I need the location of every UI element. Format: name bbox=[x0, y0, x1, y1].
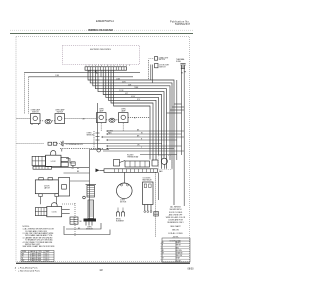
wire lamp labels bbox=[83, 117, 137, 120]
title WIRING DIAGRAM bbox=[10, 28, 193, 32]
lamp switch L1 bbox=[31, 114, 41, 125]
wire fan-out right bbox=[88, 70, 174, 205]
door light switch SW2 bbox=[155, 63, 170, 68]
oven light switch SW1 bbox=[149, 57, 169, 62]
lock motor assembly A1 bbox=[32, 151, 68, 167]
right notes block bbox=[166, 206, 186, 239]
wire relay to enclosure bbox=[70, 180, 90, 182]
svg-text:THERMOSTAT: THERMOSTAT bbox=[127, 156, 138, 159]
svg-text:SEW: SEW bbox=[38, 258, 42, 260]
convection label bbox=[108, 131, 114, 135]
svg-text:WIRE NO. AND COLOR: WIRE NO. AND COLOR bbox=[166, 216, 186, 219]
svg-text:WHITE: WHITE bbox=[176, 245, 181, 247]
wire drops below box right bbox=[149, 60, 153, 83]
svg-text:SEE CHART: SEE CHART bbox=[170, 225, 181, 228]
date code bbox=[188, 267, 195, 270]
svg-text:FOR ALL CODES: FOR ALL CODES bbox=[168, 232, 183, 235]
svg-text:34 W: 34 W bbox=[122, 81, 126, 83]
svg-text:ALL WIRING: ALL WIRING bbox=[170, 206, 181, 209]
convection motor M1 bbox=[117, 172, 133, 203]
svg-text:COLOR CODE: COLOR CODE bbox=[169, 240, 181, 242]
svg-text:TEMP: TEMP bbox=[45, 251, 49, 253]
thermal fuse TF1 bbox=[176, 58, 186, 74]
wire chart table bbox=[21, 250, 54, 262]
element terminals bbox=[116, 208, 125, 223]
svg-text:SWITCH: SWITCH bbox=[159, 59, 166, 61]
svg-text:65 GY: 65 GY bbox=[131, 96, 135, 98]
publication number text bbox=[170, 20, 191, 26]
svg-text:SEE WIRE CHART BELOW FOR SIZE: SEE WIRE CHART BELOW FOR SIZE bbox=[23, 245, 56, 248]
svg-text:E30EW75GPS A: E30EW75GPS A bbox=[96, 20, 114, 23]
wire lamp drops bbox=[101, 123, 123, 131]
svg-text:YELLOW: YELLOW bbox=[176, 255, 183, 257]
wire color code table bbox=[161, 238, 191, 262]
door switch S3 bbox=[62, 203, 83, 237]
lamp row labels bbox=[31, 108, 127, 113]
svg-text:LOCK: LOCK bbox=[51, 161, 57, 163]
wire thermal fuse drops bbox=[182, 70, 185, 206]
notes block bbox=[23, 226, 56, 248]
svg-text:12 BK: 12 BK bbox=[116, 79, 120, 81]
svg-text:13: 13 bbox=[99, 268, 103, 272]
svg-text:BELOW: BELOW bbox=[172, 230, 179, 232]
thermal fuse wire left bbox=[17, 141, 163, 146]
igniter element E2 bbox=[84, 200, 97, 222]
svg-text:5995502537: 5995502537 bbox=[175, 23, 191, 26]
svg-text:VIOLET: VIOLET bbox=[176, 260, 182, 262]
connector P1 bbox=[85, 67, 127, 70]
svg-text:*: * bbox=[15, 271, 16, 273]
wire relay to lock2 bbox=[41, 197, 57, 205]
terminal block TB2 bbox=[154, 212, 159, 217]
lamp switch L4 bbox=[119, 113, 129, 123]
svg-text:SWITCH: SWITCH bbox=[57, 111, 64, 113]
relay module K1 bbox=[143, 178, 154, 213]
relay box K2 bbox=[35, 178, 69, 197]
svg-text:CODES ARE FOR: CODES ARE FOR bbox=[168, 219, 183, 222]
model number text bbox=[96, 20, 114, 23]
pin number row P1 bbox=[86, 65, 131, 67]
svg-text:43 Y: 43 Y bbox=[125, 93, 128, 95]
svg-text:SENSOR: SENSOR bbox=[87, 135, 95, 137]
svg-text:TYPE: TYPE bbox=[38, 251, 42, 253]
sensor probe column bbox=[87, 103, 101, 152]
svg-text:11 BK: 11 BK bbox=[55, 75, 59, 77]
lamp switch L2 bbox=[55, 114, 65, 124]
footer rule bbox=[16, 262, 190, 264]
wire to sensor enclosure bbox=[64, 171, 90, 173]
svg-text:FAN RELAY: FAN RELAY bbox=[143, 179, 153, 182]
svg-text:SWITCH: SWITCH bbox=[159, 67, 166, 69]
lamp bulb O1 bbox=[45, 119, 51, 124]
svg-text:SWITCH: SWITCH bbox=[32, 111, 39, 113]
mid component row bbox=[114, 155, 159, 167]
footer legend bbox=[15, 266, 41, 272]
junction node A bbox=[95, 71, 97, 73]
terminal strip TB bbox=[33, 166, 89, 169]
svg-text:FUSE: FUSE bbox=[176, 61, 182, 63]
wire labels mid bbox=[137, 129, 143, 149]
svg-text:= Fast-Moving Parts: = Fast-Moving Parts bbox=[18, 266, 39, 269]
wire lamp row bbox=[17, 118, 151, 121]
svg-text:1 2 3 4 5 6 7 8 9 0 1 2 3 4 5: 1 2 3 4 5 6 7 8 9 0 1 2 3 4 5 bbox=[86, 65, 131, 67]
terminal strip row 2 bbox=[96, 169, 158, 173]
svg-text:BROWN: BROWN bbox=[176, 250, 183, 252]
lamp bulb O2 bbox=[109, 118, 115, 122]
svg-text:MOTOR: MOTOR bbox=[120, 202, 127, 204]
lock motor assembly A2 bbox=[35, 203, 69, 217]
wire lock zigzag bbox=[60, 149, 103, 163]
mid wire returns bbox=[103, 131, 184, 155]
svg-text:ELEMENT: ELEMENT bbox=[116, 221, 124, 223]
wire arrow ticks mid bbox=[101, 130, 108, 149]
wire left bus B bbox=[29, 70, 134, 113]
svg-text:SEW: SEW bbox=[38, 260, 42, 262]
svg-text:DOOR LIGHT: DOOR LIGHT bbox=[159, 65, 169, 67]
wire left bus A bbox=[25, 70, 141, 113]
latch switch S4 bbox=[71, 162, 80, 170]
wire labels bus bbox=[55, 71, 140, 101]
svg-text:WIRE: WIRE bbox=[22, 251, 26, 253]
svg-text:SEW: SEW bbox=[38, 253, 42, 255]
svg-text:08/03: 08/03 bbox=[188, 267, 195, 270]
svg-text:AND OVEN OFF: AND OVEN OFF bbox=[169, 213, 183, 216]
svg-text:LOCK: LOCK bbox=[52, 212, 58, 214]
igniter element E1 bbox=[83, 150, 109, 219]
svg-text:REFERENCE ONLY: REFERENCE ONLY bbox=[167, 222, 184, 224]
svg-text:SEW: SEW bbox=[38, 256, 42, 258]
svg-text:87 V: 87 V bbox=[137, 99, 140, 101]
right nested wires bbox=[156, 72, 187, 237]
svg-text:LATCH: LATCH bbox=[44, 187, 50, 190]
lamp switch L3 bbox=[97, 113, 107, 123]
electronic oven control U1 bbox=[63, 45, 140, 64]
svg-text:TO TERMINAL BLOCK: TO TERMINAL BLOCK bbox=[66, 143, 84, 146]
svg-text:ELECTRONIC OVEN CONTROL: ELECTRONIC OVEN CONTROL bbox=[90, 49, 111, 51]
page number bbox=[99, 268, 103, 272]
svg-text:WIRING DIAGRAM: WIRING DIAGRAM bbox=[88, 28, 113, 32]
svg-text:OVEN LIGHT: OVEN LIGHT bbox=[159, 57, 169, 59]
svg-text:= Non-Illustrated Parts: = Non-Illustrated Parts bbox=[18, 270, 41, 273]
cooling fan motor M2 bbox=[159, 156, 173, 174]
sensor label bbox=[86, 227, 94, 231]
wire sensor return bbox=[64, 223, 110, 235]
sensor legs bbox=[86, 222, 92, 226]
